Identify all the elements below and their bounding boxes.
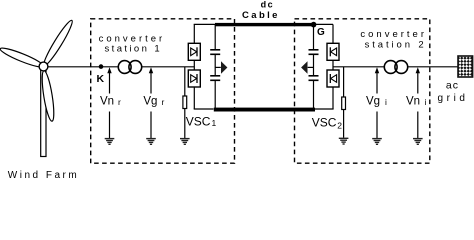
- wire Vn_i ground lead: [417, 112, 419, 139]
- svg-text:Vn: Vn: [406, 95, 420, 107]
- svg-text:1: 1: [212, 118, 217, 128]
- svg-text:r: r: [118, 97, 121, 107]
- voltage arrow Vg_r: [150, 70, 152, 94]
- voltage arrow Vn_r: [109, 70, 111, 94]
- ground Vn_r: [105, 139, 115, 145]
- transformer T2: [384, 61, 397, 74]
- svg-text:i: i: [385, 97, 387, 107]
- ground VSC1: [180, 139, 190, 145]
- wind turbine hub: [39, 62, 48, 71]
- capacitor C4 lower (station 2): [313, 54, 315, 75]
- wire Vn_r ground lead: [109, 112, 111, 139]
- dc midpoint arrow (station 2): [308, 66, 314, 68]
- svg-text:r: r: [162, 97, 165, 107]
- dc cable top conductor: [215, 23, 314, 26]
- transformer T1: [118, 61, 131, 74]
- wire VSC1 bottom to dc rail: [193, 87, 195, 109]
- svg-text:K: K: [97, 73, 105, 85]
- capacitor C3 upper (station 2): [313, 26, 315, 50]
- wire ac line VSC2 midpoint to transformer 2: [333, 66, 384, 68]
- wire ac line transformer 1 to VSC1 midpoint: [142, 66, 195, 68]
- svg-text:VSC: VSC: [312, 116, 337, 130]
- converter station 1 dashed box: [91, 19, 235, 163]
- valve S1 lower (diode box): [193, 60, 195, 70]
- svg-text:Vg: Vg: [366, 95, 380, 107]
- dc cable bottom conductor: [214, 108, 315, 112]
- svg-text:Vn: Vn: [100, 95, 114, 107]
- wind turbine blade left: [0, 45, 45, 70]
- voltage arrow Vn_i: [417, 70, 419, 94]
- svg-text:i: i: [425, 97, 427, 107]
- resistor R1 (VSC1 midpoint): [184, 67, 186, 96]
- wire Vg_r ground lead: [150, 112, 152, 139]
- svg-text:VSC: VSC: [186, 114, 211, 128]
- voltage arrow Vg_i: [376, 70, 378, 94]
- converter station 2 dashed box: [295, 19, 430, 163]
- svg-text:Vg: Vg: [143, 95, 157, 107]
- wire VSC2 bottom to dc rail: [332, 87, 334, 109]
- valve S2 upper (diode box): [327, 43, 339, 60]
- capacitor C1 upper (station 1): [214, 25, 216, 50]
- svg-text:Cable: Cable: [242, 10, 280, 21]
- svg-text:ac: ac: [446, 80, 459, 92]
- wind turbine blade lower: [40, 70, 56, 122]
- node G: [311, 22, 317, 28]
- ground Vg_i: [372, 139, 382, 145]
- wire ac line transformer 2 to ac grid: [408, 66, 459, 68]
- ground Vn_i: [413, 139, 423, 145]
- svg-text:Wind Farm: Wind Farm: [8, 170, 79, 180]
- svg-text:dc: dc: [261, 0, 275, 9]
- wire ac line wind farm to transformer 1: [46, 66, 118, 68]
- wire G to VSC2 top: [314, 23, 334, 25]
- svg-text:station 2: station 2: [365, 39, 427, 50]
- node K: [99, 64, 104, 69]
- valve S2 lower (diode box): [332, 60, 334, 70]
- svg-text:station 1: station 1: [105, 44, 163, 55]
- svg-text:grid: grid: [438, 93, 469, 104]
- svg-text:G: G: [317, 27, 325, 38]
- ac grid block: [458, 56, 473, 77]
- wind turbine blade upper-right: [41, 18, 75, 67]
- wire VSC1 top to dc rail: [194, 23, 216, 25]
- svg-text:2: 2: [337, 121, 342, 131]
- valve S1 upper (diode box): [193, 24, 195, 43]
- resistor R2 (VSC2 midpoint): [343, 67, 345, 97]
- ground VSC2: [339, 138, 349, 144]
- capacitor C2 lower (station 1): [214, 54, 216, 75]
- ground Vg_r: [146, 139, 156, 145]
- wire Vg_i ground lead: [376, 112, 378, 139]
- dc midpoint arrow (station 1): [215, 66, 221, 68]
- wind turbine tower: [41, 69, 46, 157]
